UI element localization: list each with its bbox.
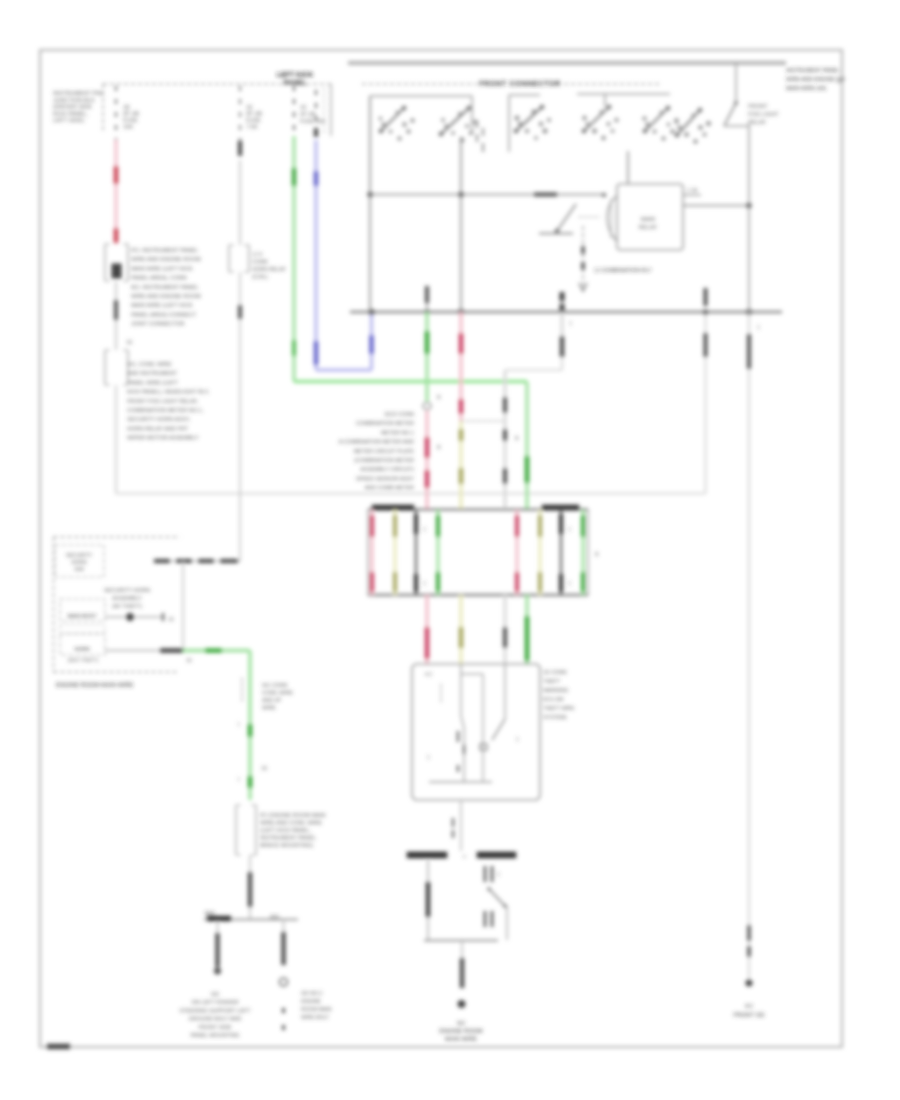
B2 output line xyxy=(105,616,164,618)
junction y195 x461 xyxy=(458,192,464,198)
switch link dashed xyxy=(579,216,600,218)
svg-text:(W/O THEFT): (W/O THEFT) xyxy=(68,658,99,664)
svg-text:1: 1 xyxy=(568,527,571,533)
svg-text:1 1A: 1 1A xyxy=(687,188,698,194)
lower switch right leg marks xyxy=(484,866,487,882)
relay top pin xyxy=(627,151,629,184)
svg-text:(LEFT KICK PANEL,: (LEFT KICK PANEL, xyxy=(260,828,312,834)
junction bus x706 xyxy=(703,309,709,315)
gray to ECU xyxy=(504,595,507,665)
svg-text:WIPER MOTOR ASSEMBLY: WIPER MOTOR ASSEMBLY xyxy=(127,436,199,442)
lower switch left leg xyxy=(427,860,429,940)
svg-text:THEFT WRN: THEFT WRN xyxy=(543,706,574,712)
svg-text:1: 1 xyxy=(516,737,519,743)
pink main from bus xyxy=(459,312,462,421)
svg-text:1: 1 xyxy=(568,581,571,587)
wire W2 drop to horn node xyxy=(182,561,184,651)
svg-text:GROUND BOLT AND: GROUND BOLT AND xyxy=(189,1017,242,1023)
wire to center ground xyxy=(461,941,463,958)
wire label W4 blue xyxy=(314,171,319,186)
ground node right xyxy=(745,979,752,986)
wire label pink main xyxy=(459,333,464,354)
wire label gray low xyxy=(503,627,507,648)
svg-text:(DRIVER SIDE: (DRIVER SIDE xyxy=(53,105,92,111)
ECU bottom rail xyxy=(429,781,492,783)
right feed from top line xyxy=(735,63,737,103)
horn output line xyxy=(105,650,160,652)
svg-text:BRACE MOUNTING): BRACE MOUNTING) xyxy=(260,843,313,849)
svg-text:FOG LIGHT: FOG LIGHT xyxy=(748,112,779,118)
fuse bracket 3 xyxy=(577,93,670,95)
harness label right xyxy=(477,852,516,858)
inner box B1 xyxy=(55,545,104,577)
svg-text:1: 1 xyxy=(757,325,760,331)
svg-text:1: 1 xyxy=(237,777,240,783)
svg-text:HORN: HORN xyxy=(71,560,87,566)
feeder elbow xyxy=(505,369,562,371)
fuse bracket 1 xyxy=(370,95,472,97)
switch arm SW1 xyxy=(557,204,576,231)
wire label left leg xyxy=(426,882,431,917)
svg-text:INSTRUMENT PNL: INSTRUMENT PNL xyxy=(53,91,105,97)
svg-text:COMBINATION METER: COMBINATION METER xyxy=(356,421,414,427)
wire label W2 top xyxy=(238,141,242,156)
svg-text:FUSE: FUSE xyxy=(123,118,138,124)
svg-text:JOINT CONNECTOR: JOINT CONNECTOR xyxy=(131,322,185,328)
wire label W1 riser xyxy=(704,333,708,357)
svg-text:PANEL MOUNTING: PANEL MOUNTING xyxy=(191,1033,240,1039)
ECU internal switch xyxy=(492,719,505,740)
main bus xyxy=(350,311,782,314)
wire W4 blue vertical xyxy=(314,140,317,370)
wire label pink b xyxy=(425,470,430,488)
wire W2 connector stub xyxy=(239,86,241,160)
svg-text:FRONT SIDE: FRONT SIDE xyxy=(198,1025,232,1031)
ground node center xyxy=(458,1000,466,1008)
svg-text:IH1, COWL WIRE: IH1, COWL WIRE xyxy=(127,362,172,368)
switch contact bar xyxy=(539,233,573,235)
wire W3 connector stub xyxy=(293,86,295,136)
svg-text:IF2, INSTRUMENT PANEL: IF2, INSTRUMENT PANEL xyxy=(131,248,198,254)
svg-text:A COMBINATION METER AND: A COMBINATION METER AND xyxy=(339,440,414,446)
label bar EA1 xyxy=(207,916,231,921)
ECU internal mark xyxy=(457,731,460,742)
svg-text:1B: 1B xyxy=(123,105,130,111)
fuse F6 xyxy=(677,110,700,135)
fuse F2 xyxy=(441,108,469,134)
connector top label left xyxy=(372,505,414,510)
svg-text:AND COMB METER: AND COMB METER xyxy=(365,486,415,492)
wire W3 green drop to connector xyxy=(525,382,528,510)
splice S1 xyxy=(423,402,431,410)
svg-text:MAIN WIRE (LEFT KICK: MAIN WIRE (LEFT KICK xyxy=(131,303,193,309)
right rail R1 xyxy=(748,124,750,312)
fuse F4 xyxy=(584,107,609,131)
svg-text:CONN: CONN xyxy=(252,260,268,266)
relay box U1 xyxy=(617,184,683,250)
wire label feeder xyxy=(560,336,565,357)
svg-text:PANEL AREA), CONN: PANEL AREA), CONN xyxy=(131,276,187,282)
svg-text:IF1 ENGINE ROOM MAIN: IF1 ENGINE ROOM MAIN xyxy=(260,813,326,819)
wire label on horizontal xyxy=(154,559,170,563)
svg-text:1: 1 xyxy=(237,722,240,728)
harness label left xyxy=(407,852,447,858)
junction bus x427 xyxy=(424,309,429,314)
svg-text:LEFT KICK: LEFT KICK xyxy=(277,72,314,79)
svg-text:1E CONN: 1E CONN xyxy=(543,670,567,676)
junction bus x562 xyxy=(559,309,564,314)
fuse F5 xyxy=(645,108,668,131)
svg-text:PANEL WIRE (LEFT: PANEL WIRE (LEFT xyxy=(127,380,179,386)
svg-text:FRONT GD: FRONT GD xyxy=(733,1013,765,1019)
lower switch arm xyxy=(489,889,505,906)
svg-text:PANEL AREA) CONNECT: PANEL AREA) CONNECT xyxy=(131,312,197,318)
svg-text:INSTRUMENT PANEL: INSTRUMENT PANEL xyxy=(786,68,840,74)
svg-text:15A: 15A xyxy=(123,125,133,131)
gray wire down xyxy=(504,370,507,509)
svg-text:MAIN: MAIN xyxy=(641,217,656,223)
svg-text:1J 4: 1J 4 xyxy=(252,252,262,258)
ECU internal dashed xyxy=(440,684,442,702)
junction connector box xyxy=(368,508,588,510)
lower switch bottom rail xyxy=(424,940,498,942)
svg-text:MAIN WIRE: MAIN WIRE xyxy=(445,1037,477,1043)
svg-text:THEFT: THEFT xyxy=(543,679,561,685)
svg-text:I/P J/B: I/P J/B xyxy=(300,112,316,118)
lower switch right leg xyxy=(506,906,508,940)
connector J1 brackets xyxy=(104,244,106,281)
wire W1 long horizontal run xyxy=(116,493,705,495)
connector J3 brackets xyxy=(228,245,230,272)
pink to ECU xyxy=(425,595,428,665)
wire label W4 blue 2 xyxy=(314,341,319,365)
bus drop connector x562 xyxy=(561,292,563,312)
end tick xyxy=(162,613,164,621)
ECU internal gray input xyxy=(504,664,506,719)
bracket mark xyxy=(452,818,455,827)
wire label ground left xyxy=(215,933,220,967)
security dashed box xyxy=(54,536,181,538)
wire label W3 drop xyxy=(525,456,530,483)
svg-text:RELAY: RELAY xyxy=(639,225,658,231)
svg-text:WIRE AND ENGINE ROOM: WIRE AND ENGINE ROOM xyxy=(131,294,201,300)
wire W1 lower xyxy=(115,385,117,494)
svg-text:ENGINE: ENGINE xyxy=(301,999,321,1005)
svg-text:WIRE AND ENGINE ROOM: WIRE AND ENGINE ROOM xyxy=(131,257,201,263)
inner box B3 xyxy=(60,625,105,633)
wire label right rail low xyxy=(747,925,751,941)
wire label green low xyxy=(525,616,530,661)
svg-text:FRONT FOG LIGHT RELAY,: FRONT FOG LIGHT RELAY, xyxy=(127,399,199,405)
svg-text:COWL WIRE: COWL WIRE xyxy=(262,691,293,697)
node on B2 output xyxy=(126,613,134,621)
wire label horn green xyxy=(205,648,222,653)
fuse aux marks xyxy=(476,120,478,128)
ground branch right xyxy=(283,921,285,965)
wire W4 blue elbow xyxy=(316,368,372,371)
wire W3 green horizontal xyxy=(294,380,527,383)
part number bottom left xyxy=(47,1044,70,1049)
svg-text:4 2: 4 2 xyxy=(425,672,432,678)
svg-text:1E: 1E xyxy=(126,340,133,346)
stub above bus x427 xyxy=(426,295,428,312)
wire label W4 riser xyxy=(369,335,374,354)
svg-text:1E22 CONN: 1E22 CONN xyxy=(384,412,414,418)
svg-text:ON LEFT FENDER: ON LEFT FENDER xyxy=(191,1000,238,1006)
svg-text:1: 1 xyxy=(569,321,572,327)
pink wire from splice xyxy=(425,411,428,509)
wire label to ground xyxy=(460,958,465,988)
wire label horn output xyxy=(160,648,183,653)
svg-text:GD NO.2: GD NO.2 xyxy=(301,991,322,997)
svg-text:ENGINE ROOM MAIN WIRE: ENGINE ROOM MAIN WIRE xyxy=(56,683,133,689)
svg-text:ASSEMBLY CIRCUIT): ASSEMBLY CIRCUIT) xyxy=(360,467,414,473)
ECU internal L branch xyxy=(461,673,483,675)
wire label right rail xyxy=(747,334,751,369)
wire W4 connector stub xyxy=(315,90,317,140)
ECU box U2 xyxy=(412,664,540,800)
yellow to ECU xyxy=(459,595,462,665)
connector mark above bus x706 xyxy=(704,288,708,306)
divider left xyxy=(415,510,417,595)
green stub from bus xyxy=(425,312,428,401)
svg-text:B: B xyxy=(437,445,441,451)
junction coil pin xyxy=(602,193,606,197)
relay pin stub A xyxy=(683,194,701,196)
wire label yellow low xyxy=(459,627,464,648)
svg-text:SECURITY HORN: SECURITY HORN xyxy=(104,588,150,594)
svg-text:ASSEMBLY: ASSEMBLY xyxy=(112,596,142,602)
svg-text:EB1: EB1 xyxy=(270,915,280,921)
svg-text:1E: 1E xyxy=(186,658,193,664)
connector J2 brackets xyxy=(104,350,106,385)
svg-text:FUSE 10A: FUSE 10A xyxy=(300,119,325,125)
svg-text:IH1 CONN: IH1 CONN xyxy=(262,683,287,689)
junction bus x749 xyxy=(746,309,752,315)
ECU internal center line xyxy=(461,664,464,782)
junction bus x371 xyxy=(368,309,374,315)
svg-text:METER CIRCUIT PLATE: METER CIRCUIT PLATE xyxy=(354,449,415,455)
svg-text:HORN: HORN xyxy=(74,647,90,653)
divider right xyxy=(560,510,562,595)
wire label W1 red xyxy=(114,166,119,184)
svg-text:SPEED SENSOR ASSY: SPEED SENSOR ASSY xyxy=(356,476,415,482)
fuse bracket 2 xyxy=(508,95,510,152)
connector top label right xyxy=(542,505,579,510)
ECU internal contact xyxy=(480,744,487,750)
wire label on y195 xyxy=(534,193,557,197)
svg-text:MAIN WIRE (04): MAIN WIRE (04) xyxy=(786,86,826,92)
svg-text:COMBINATION METER NO.1,: COMBINATION METER NO.1, xyxy=(127,408,204,414)
wire label W1 mid xyxy=(114,300,118,320)
svg-text:1E: 1E xyxy=(300,105,307,111)
svg-text:WIRE AND COWL WIRE: WIRE AND COWL WIRE xyxy=(260,821,322,827)
wire W1 red segment xyxy=(115,140,118,244)
svg-text:(COMBINATION METER: (COMBINATION METER xyxy=(354,458,414,464)
green to ECU xyxy=(525,595,528,665)
ground ring right xyxy=(280,978,288,986)
svg-text:1E: 1E xyxy=(261,766,268,772)
connector pins right group xyxy=(516,510,519,595)
svg-text:MAIN WIRE (LEFT KICK: MAIN WIRE (LEFT KICK xyxy=(131,266,193,272)
svg-text:IF2: IF2 xyxy=(745,1004,753,1010)
junction y195 x370 xyxy=(367,192,373,198)
relay coil arc xyxy=(607,196,617,241)
inner box B4 horn xyxy=(60,634,105,655)
wire label gray xyxy=(503,397,507,413)
svg-text:B: B xyxy=(437,395,441,401)
svg-text:JUNCTION BLK: JUNCTION BLK xyxy=(53,98,95,104)
svg-text:GD: GD xyxy=(211,992,219,998)
svg-text:1: 1 xyxy=(497,872,500,878)
svg-text:7.5A: 7.5A xyxy=(246,125,258,131)
junction right rail relay pin xyxy=(746,203,752,209)
svg-text:B: B xyxy=(595,552,599,558)
wire W3 green vertical xyxy=(292,136,295,382)
green vertical to connector xyxy=(248,651,251,801)
svg-text:AND I/P: AND I/P xyxy=(262,698,282,704)
svg-text:FUSE: FUSE xyxy=(246,118,261,124)
junction bus x461 xyxy=(458,309,464,315)
bracket beside green xyxy=(241,678,243,701)
svg-text:STEERING SUPPORT LEFT: STEERING SUPPORT LEFT xyxy=(179,1008,251,1014)
inner box B2 xyxy=(60,599,105,621)
svg-text:FRONT CONNECTOR: FRONT CONNECTOR xyxy=(479,79,561,88)
svg-text:PANEL: PANEL xyxy=(283,80,307,87)
svg-text:SECURITY HORN ASSY,: SECURITY HORN ASSY, xyxy=(127,417,191,423)
svg-text:SYSTEM): SYSTEM) xyxy=(543,715,567,721)
svg-text:1E: 1E xyxy=(246,105,253,111)
fusebox dashed boundary xyxy=(362,83,477,85)
wire W1 connector stub xyxy=(115,86,117,140)
relay pin to right rail xyxy=(683,205,749,207)
wire label green stub xyxy=(425,331,430,354)
wire label pink main 2 xyxy=(459,399,464,414)
svg-text:S/W: S/W xyxy=(74,567,84,573)
switch output wire xyxy=(582,226,584,291)
wire label pink low xyxy=(425,627,430,659)
svg-text:(W/ THEFT): (W/ THEFT) xyxy=(112,604,142,610)
connector pins left group xyxy=(371,510,374,595)
svg-text:METER NO.1: METER NO.1 xyxy=(381,430,414,436)
svg-text:1E: 1E xyxy=(168,617,175,623)
wire label black low xyxy=(248,872,253,907)
ground junction bar xyxy=(204,919,298,921)
black wire below connector xyxy=(249,855,251,919)
wire W2 horizontal to horn xyxy=(168,560,240,562)
top heavy line xyxy=(348,61,786,65)
wire label W3 green xyxy=(292,168,297,186)
svg-text:W2: W2 xyxy=(457,1021,465,1027)
green horn feed horizontal xyxy=(183,649,250,652)
svg-text:MAIN BODY: MAIN BODY xyxy=(67,614,97,620)
svg-text:WARNING: WARNING xyxy=(543,688,568,694)
coil inner line xyxy=(610,199,612,238)
svg-text:RELAY: RELAY xyxy=(748,120,766,126)
svg-text:HORN RELAY AND FRT: HORN RELAY AND FRT xyxy=(127,426,189,432)
yellow wire xyxy=(459,421,462,509)
svg-text:1: 1 xyxy=(427,755,430,761)
switch SW2 arm xyxy=(724,103,736,126)
dashed tie xyxy=(461,420,505,422)
wire W2 xyxy=(239,160,241,245)
fuse F3 xyxy=(516,107,542,131)
center vertical from fuse xyxy=(460,137,462,312)
wire label W1 red 2 xyxy=(114,228,119,243)
left supply vertical xyxy=(369,96,371,312)
connector brackets on green end xyxy=(235,805,237,855)
wire W2 mid xyxy=(239,272,241,561)
svg-text:ENGINE ROOM: ENGINE ROOM xyxy=(439,1029,482,1035)
wire W1 mid xyxy=(115,281,117,350)
svg-text:KICK PANEL,: KICK PANEL, xyxy=(53,111,89,117)
svg-text:ECU (W/: ECU (W/ xyxy=(543,697,564,703)
svg-text:IE2, INSTRUMENT PANEL: IE2, INSTRUMENT PANEL xyxy=(131,285,199,291)
svg-text:(COIL): (COIL) xyxy=(252,275,268,281)
svg-text:WIRE: WIRE xyxy=(262,706,276,712)
right rail lower xyxy=(748,312,750,980)
SW2 to right rail xyxy=(724,125,749,127)
ground branch left xyxy=(217,921,219,967)
wire label green v2 xyxy=(248,776,253,788)
svg-text:FRONT: FRONT xyxy=(748,104,768,110)
wire label W3 green 2 xyxy=(292,340,296,356)
wire label green v1 xyxy=(248,724,253,737)
svg-text:AND INSTRUMENT: AND INSTRUMENT xyxy=(127,371,178,377)
svg-text:I/P J/B: I/P J/B xyxy=(246,112,262,118)
wire below ECU xyxy=(460,800,462,851)
svg-text:INSTRUMENT PANEL: INSTRUMENT PANEL xyxy=(260,836,316,842)
coil feed horizontal y195 xyxy=(370,194,604,196)
wire label yellow xyxy=(459,429,464,441)
fuse F1 xyxy=(381,108,404,131)
svg-text:LEFT SIDE): LEFT SIDE) xyxy=(53,118,84,124)
ground node left xyxy=(214,967,221,974)
svg-text:B: B xyxy=(515,436,519,442)
svg-text:HORN RELAY: HORN RELAY xyxy=(252,267,287,273)
svg-text:WIRE BOLT: WIRE BOLT xyxy=(301,1015,330,1021)
svg-text:SECURITY: SECURITY xyxy=(66,553,93,559)
wire label pink xyxy=(425,437,430,458)
connector terminal blob xyxy=(112,264,121,278)
svg-text:1: 1 xyxy=(423,581,426,587)
svg-text:KICK PANEL), HEADLIGHT RLY,: KICK PANEL), HEADLIGHT RLY, xyxy=(127,390,210,396)
svg-text:1: 1 xyxy=(423,527,426,533)
svg-text:I/P J/B: I/P J/B xyxy=(123,112,139,118)
wire label yellow 2 xyxy=(459,468,464,484)
wire label ground right xyxy=(281,932,286,965)
svg-text:ROOM MAIN: ROOM MAIN xyxy=(301,1007,332,1013)
feeder stub from bus x562 xyxy=(561,312,564,340)
I/P junction block dashed boundary xyxy=(103,83,331,85)
wire label W2 mid xyxy=(238,305,242,319)
svg-text:1J COMBINATION RLY: 1J COMBINATION RLY xyxy=(594,268,652,274)
wire W1 riser to bus xyxy=(705,312,707,494)
